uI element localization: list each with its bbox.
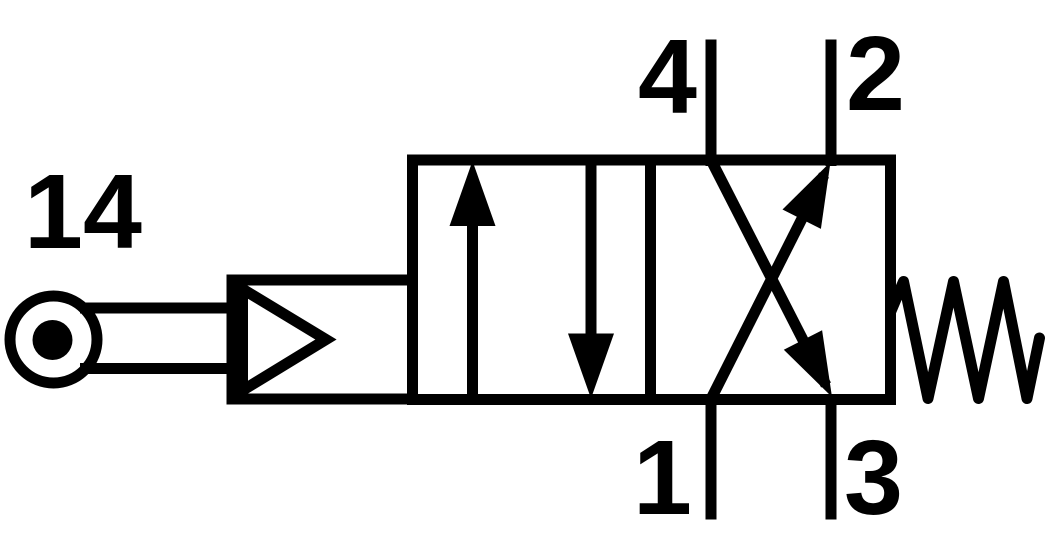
svg-text:14: 14 — [24, 153, 142, 271]
svg-text:2: 2 — [846, 15, 905, 133]
svg-text:3: 3 — [844, 419, 903, 537]
svg-text:4: 4 — [638, 18, 697, 136]
svg-text:1: 1 — [633, 419, 692, 537]
